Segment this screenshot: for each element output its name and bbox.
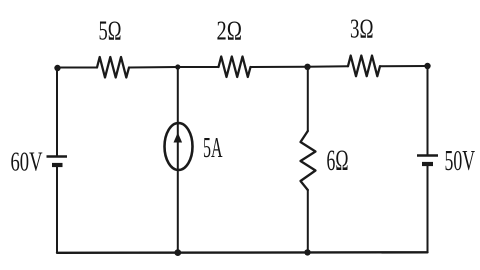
resistor 6Ω	[301, 131, 316, 190]
resistor 2Ω	[219, 57, 251, 78]
battery V1 60V short plate	[52, 163, 63, 167]
svg-text:60V: 60V	[11, 147, 43, 177]
wire top between node C and 3Ω	[308, 65, 349, 68]
wire right branch upper	[427, 66, 429, 155]
battery V1 60V long plate	[47, 155, 68, 158]
node F bottom junction dot	[304, 249, 310, 255]
node B junction dot	[175, 64, 180, 69]
current source arrow head	[174, 133, 183, 143]
wire top between 3Ω and node D	[380, 65, 428, 67]
battery V2 50V long plate	[417, 154, 438, 157]
wire current-source branch lower	[177, 170, 179, 253]
wire left branch lower	[56, 166, 58, 253]
wire right branch lower	[427, 165, 429, 252]
current source ellipse I1 5A	[165, 123, 193, 170]
svg-text:3Ω: 3Ω	[350, 14, 374, 44]
resistor 5Ω	[97, 57, 129, 78]
wire top between node B and 2Ω	[178, 66, 219, 68]
node D top-right junction dot	[424, 63, 430, 69]
wire top between 2Ω and node C	[251, 66, 308, 68]
node A top-left junction dot	[54, 65, 60, 71]
battery V2 50V short plate	[422, 162, 433, 166]
wire bottom	[57, 251, 428, 254]
wire left branch upper	[56, 68, 58, 156]
node C junction dot	[304, 64, 310, 70]
svg-text:6Ω: 6Ω	[327, 144, 349, 177]
wire current-source branch upper	[177, 67, 179, 124]
wire top between 5Ω and node B	[129, 66, 178, 69]
svg-text:50V: 50V	[445, 145, 476, 177]
svg-text:5Ω: 5Ω	[99, 16, 122, 46]
wire current-source branch through source	[177, 124, 179, 170]
resistor 3Ω	[348, 56, 380, 77]
wire 6Ω branch upper	[307, 67, 309, 131]
svg-text:2Ω: 2Ω	[217, 16, 243, 46]
node E bottom junction dot	[174, 249, 181, 256]
wire 6Ω branch lower	[307, 190, 309, 252]
wire top left segment	[57, 67, 97, 69]
svg-text:5A: 5A	[203, 133, 223, 164]
